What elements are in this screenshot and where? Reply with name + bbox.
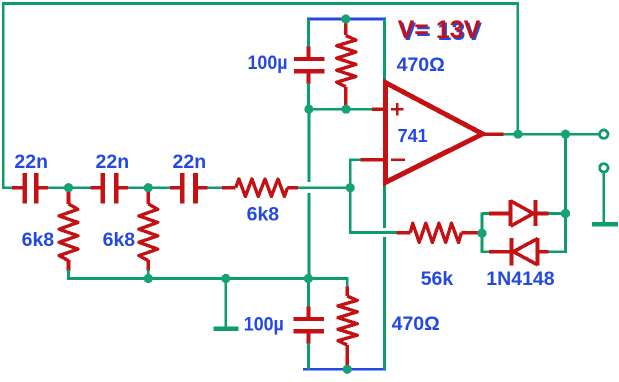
- svg-text:22n: 22n: [173, 151, 207, 173]
- node inverting junction: [346, 183, 355, 192]
- node ladder junction 2: [144, 183, 153, 192]
- diode D1 1N4148 (points right): [489, 200, 549, 226]
- svg-text:22n: 22n: [96, 151, 130, 173]
- node bottom rail junction R2: [144, 274, 153, 283]
- resistor R5 470ohm bottom: [338, 287, 357, 366]
- svg-text:V= 13V: V= 13V: [398, 16, 481, 44]
- wire V- blue rail bottom: [303, 368, 386, 371]
- resistor R2 6k8 vertical: [139, 190, 158, 271]
- wire non-inverting node: [309, 108, 372, 111]
- wire diode top-right stub: [549, 212, 566, 215]
- wire ladder line segment 1: [3, 186, 22, 189]
- op-amp U1 741 triangle: [385, 83, 482, 183]
- wire supply vertical to bottom rail: [383, 237, 386, 369]
- resistor R3 6k8 horizontal: [222, 179, 298, 196]
- svg-text:741: 741: [398, 126, 428, 146]
- op-amp minus input lead: [360, 158, 383, 161]
- wire bottom diode right connect: [549, 250, 567, 253]
- terminal output circle: [600, 130, 608, 138]
- capacitor C1 22n: [12, 173, 48, 204]
- node bottom rail divider junction: [304, 274, 313, 283]
- svg-text:6k8: 6k8: [247, 203, 280, 225]
- wire output line: [503, 133, 599, 136]
- node ladder junction 1: [64, 183, 73, 192]
- svg-text:100µ: 100µ: [244, 314, 284, 335]
- capacitor C3 22n: [170, 173, 207, 204]
- resistor R6 56k: [396, 223, 480, 242]
- capacitor C5 100u bottom: [294, 279, 325, 370]
- resistor R4 470ohm top: [337, 19, 356, 109]
- wire terminal 2 drop: [602, 173, 605, 223]
- wire top feedback rail: [2, 2, 519, 5]
- wire V+ blue rail top: [307, 18, 386, 21]
- svg-text:100µ: 100µ: [248, 53, 288, 74]
- wire output drop to diodes: [564, 134, 567, 252]
- wire inverting node corner: [350, 158, 396, 232]
- svg-text:1N4148: 1N4148: [486, 268, 554, 290]
- node bottom rail ground junction: [221, 274, 230, 283]
- wire feedback vertical drop to output: [516, 4, 519, 135]
- svg-text:6k8: 6k8: [22, 229, 55, 251]
- wire mid vertical lower: [308, 193, 311, 279]
- svg-text:22n: 22n: [14, 151, 48, 173]
- node non-inverting left junction: [304, 105, 313, 114]
- wire ladder line segment 4: [198, 186, 235, 189]
- diode D2 1N4148 (points left): [489, 238, 549, 266]
- wire inverting node vertical: [350, 158, 361, 161]
- wire R1 bottom to rail: [67, 270, 70, 279]
- svg-text:6k8: 6k8: [103, 229, 136, 251]
- node non-inverting right junction: [341, 105, 350, 114]
- wire supply vertical top: [383, 19, 386, 83]
- wire ladder to inverting node: [287, 186, 350, 189]
- wire ladder line segment 3: [118, 186, 180, 189]
- terminal ground circle: [600, 164, 608, 172]
- wire ground tap: [224, 279, 227, 327]
- wire bottom resistor top corner: [308, 279, 347, 288]
- wire diode left rail: [481, 212, 484, 253]
- op-amp plus symbol: [391, 103, 403, 115]
- wire mid vertical upper (hop over ladder wire): [308, 109, 311, 182]
- node output right junction: [561, 130, 570, 139]
- capacitor C4 100u top: [294, 19, 325, 109]
- wire bottom ground rail: [67, 277, 347, 280]
- wire R2 bottom to rail: [147, 270, 150, 279]
- wire left feedback rail: [2, 4, 5, 190]
- svg-text:470Ω: 470Ω: [397, 54, 445, 76]
- wire supply vertical lower (hop over 56k wire): [383, 183, 386, 228]
- wire diode bottom-left stub: [482, 250, 490, 253]
- wire ladder line segment 2: [38, 186, 100, 189]
- svg-text:56k: 56k: [421, 268, 454, 290]
- capacitor C2 22n: [91, 173, 128, 204]
- op-amp output lead: [484, 133, 504, 136]
- node V+ rail junction: [341, 14, 350, 23]
- wire diode top-left stub: [482, 212, 490, 215]
- resistor R1 6k8 vertical: [59, 190, 78, 271]
- ground symbol left: [214, 327, 239, 332]
- op-amp minus symbol: [391, 158, 405, 161]
- op-amp plus input lead: [372, 108, 384, 111]
- ground symbol right: [592, 222, 618, 227]
- node diode right junction: [561, 209, 570, 218]
- node V- rail junction: [343, 365, 352, 374]
- node diode left junction: [477, 229, 486, 238]
- svg-text:470Ω: 470Ω: [392, 313, 440, 335]
- node output feedback junction: [513, 130, 522, 139]
